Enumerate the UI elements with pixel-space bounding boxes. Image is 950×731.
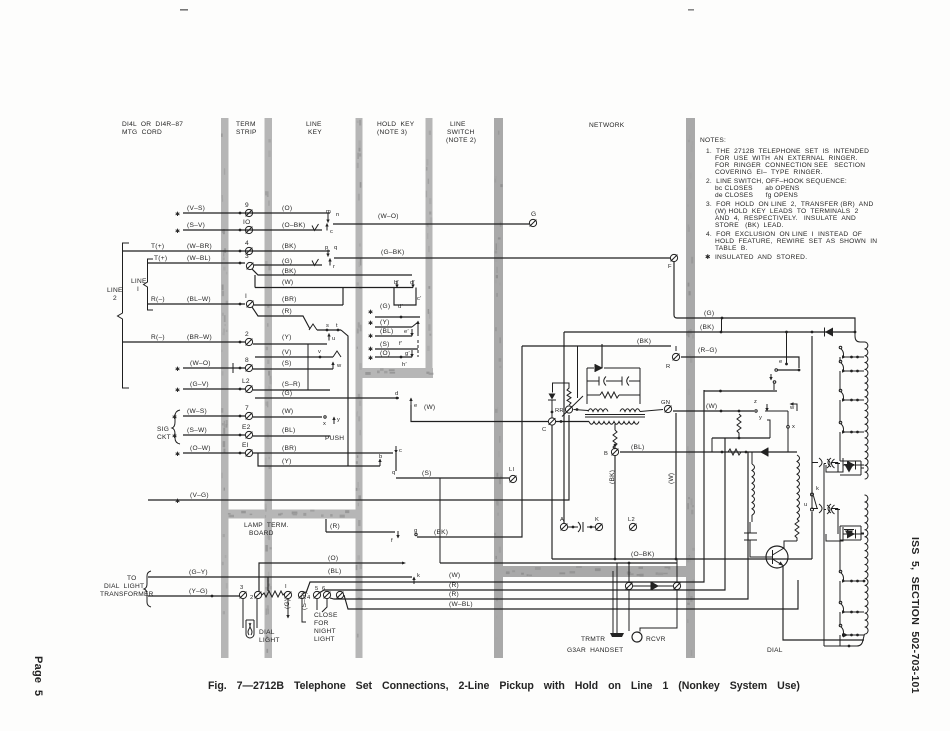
svg-text:(BK): (BK) xyxy=(434,529,448,536)
svg-text:✱: ✱ xyxy=(368,320,373,327)
svg-text:(BK): (BK) xyxy=(637,338,651,345)
svg-text:RCVR: RCVR xyxy=(646,636,666,643)
svg-text:TRMTR: TRMTR xyxy=(581,636,605,643)
svg-text:(R): (R) xyxy=(449,582,459,589)
svg-text:MTG CORD: MTG CORD xyxy=(122,129,162,136)
svg-text:(S–R): (S–R) xyxy=(282,381,300,388)
svg-text:RR: RR xyxy=(555,408,564,414)
svg-text:(G): (G) xyxy=(282,258,292,265)
svg-text:h′: h′ xyxy=(402,362,407,368)
svg-text:LINE: LINE xyxy=(450,121,466,128)
svg-text:(S–V): (S–V) xyxy=(187,222,205,229)
svg-text:3: 3 xyxy=(240,585,243,591)
svg-text:u: u xyxy=(804,502,807,508)
svg-text:3. FOR HOLD ON LINE 2, TR: 3. FOR HOLD ON LINE 2, TRANSFER (BR) AND xyxy=(706,201,873,208)
svg-text:(Y): (Y) xyxy=(282,334,292,341)
svg-text:✱: ✱ xyxy=(175,366,180,373)
svg-text:(Y): (Y) xyxy=(380,319,390,326)
svg-text:✱: ✱ xyxy=(175,498,180,505)
svg-text:LINE: LINE xyxy=(107,287,123,294)
svg-text:(O–BK): (O–BK) xyxy=(631,551,654,558)
svg-text:ISS 5, SECTION 502-703-101: ISS 5, SECTION 502-703-101 xyxy=(909,537,921,694)
svg-text:(O): (O) xyxy=(282,205,292,212)
svg-text:TABLE B.: TABLE B. xyxy=(715,245,748,252)
svg-text:c: c xyxy=(399,448,402,454)
svg-text:LI: LI xyxy=(509,467,514,473)
svg-text:BOARD: BOARD xyxy=(249,530,274,537)
svg-text:e′: e′ xyxy=(404,329,409,335)
svg-text:✱: ✱ xyxy=(368,355,373,362)
svg-text:f: f xyxy=(391,538,393,544)
svg-text:(G): (G) xyxy=(284,599,291,609)
svg-text:STORE (BK) LEAD.: STORE (BK) LEAD. xyxy=(715,222,784,229)
svg-text:bc CLOSES ab OPENS: bc CLOSES ab OPENS xyxy=(715,185,800,192)
svg-text:NOTES:: NOTES: xyxy=(700,137,726,144)
svg-text:q: q xyxy=(392,470,395,476)
svg-text:TRANSFORMER: TRANSFORMER xyxy=(100,591,154,598)
svg-text:SIG: SIG xyxy=(157,426,169,433)
svg-text:2: 2 xyxy=(245,331,249,338)
svg-text:✱: ✱ xyxy=(175,211,180,218)
svg-text:(G–Y): (G–Y) xyxy=(189,569,208,576)
svg-text:(BR): (BR) xyxy=(282,296,297,303)
svg-text:(BK): (BK) xyxy=(282,268,296,275)
svg-text:(S): (S) xyxy=(380,341,390,348)
svg-text:e: e xyxy=(779,359,782,365)
svg-text:B: B xyxy=(604,451,608,457)
svg-text:R(–): R(–) xyxy=(151,334,165,341)
svg-text:HOLD KEY: HOLD KEY xyxy=(377,121,415,128)
svg-text:(BK): (BK) xyxy=(609,470,616,484)
svg-text:(V–S): (V–S) xyxy=(187,205,205,212)
svg-text:(O–BK): (O–BK) xyxy=(282,222,305,229)
svg-text:v: v xyxy=(318,349,321,355)
svg-text:KEY: KEY xyxy=(308,129,322,136)
svg-text:✱: ✱ xyxy=(175,228,180,235)
svg-text:(BK): (BK) xyxy=(282,243,296,250)
svg-text:(W): (W) xyxy=(282,408,293,415)
svg-text:(G–V): (G–V) xyxy=(190,381,209,388)
svg-text:✱: ✱ xyxy=(368,333,373,340)
svg-text:z: z xyxy=(754,399,757,405)
svg-text:G3AR HANDSET: G3AR HANDSET xyxy=(567,647,623,654)
svg-text:s: s xyxy=(326,323,329,329)
svg-text:3: 3 xyxy=(245,253,249,260)
svg-text:DIAL: DIAL xyxy=(259,629,275,636)
svg-text:1. THE 2712B TELEPHONE SET: 1. THE 2712B TELEPHONE SET IS INTENDED xyxy=(706,148,869,155)
svg-text:EI: EI xyxy=(242,442,249,449)
svg-text:LIGHT: LIGHT xyxy=(314,636,335,643)
svg-text:✱: ✱ xyxy=(368,346,373,353)
svg-text:A: A xyxy=(560,517,564,523)
svg-text:(BL): (BL) xyxy=(631,444,644,451)
svg-text:FOR RINGER CONNECTION SEE: FOR RINGER CONNECTION SEE SECTION xyxy=(715,162,865,169)
svg-text:T(+): T(+) xyxy=(151,243,164,250)
svg-text:de CLOSES fg OPENS: de CLOSES fg OPENS xyxy=(715,192,798,199)
svg-text:(W) HOLD KEY LEADS TO TERM: (W) HOLD KEY LEADS TO TERMINALS 2 xyxy=(715,208,859,215)
svg-text:k: k xyxy=(417,573,420,579)
svg-text:I: I xyxy=(137,286,139,293)
svg-text:q: q xyxy=(334,245,337,251)
svg-text:✱: ✱ xyxy=(175,451,180,458)
svg-text:(O): (O) xyxy=(380,350,390,357)
svg-text:(S): (S) xyxy=(422,470,432,477)
svg-text:LINE: LINE xyxy=(306,121,322,128)
svg-text:Fig. 7—2712B Telephone Set: Fig. 7—2712B Telephone Set Connections, … xyxy=(208,680,800,692)
svg-text:(R): (R) xyxy=(282,308,292,315)
svg-text:m: m xyxy=(326,209,331,215)
svg-text:y: y xyxy=(337,417,340,423)
svg-text:k: k xyxy=(816,486,819,492)
svg-text:DIAL LIGHT: DIAL LIGHT xyxy=(104,583,144,590)
svg-text:(W–BL): (W–BL) xyxy=(449,601,473,608)
svg-text:NETWORK: NETWORK xyxy=(589,122,625,129)
svg-text:w: w xyxy=(789,405,795,411)
svg-text:(W): (W) xyxy=(706,403,717,410)
svg-text:(W–BR): (W–BR) xyxy=(187,243,212,250)
svg-text:4: 4 xyxy=(245,240,249,247)
svg-text:LAMP TERM.: LAMP TERM. xyxy=(244,522,289,529)
svg-text:(R): (R) xyxy=(330,523,340,530)
svg-text:r: r xyxy=(333,264,335,270)
svg-text:(Y–G): (Y–G) xyxy=(189,588,208,595)
svg-text:CLOSE: CLOSE xyxy=(314,612,338,619)
svg-text:t: t xyxy=(336,323,338,329)
svg-text:4. FOR EXCLUSION ON LINE I: 4. FOR EXCLUSION ON LINE I INSTEAD OF xyxy=(706,231,862,238)
svg-text:I: I xyxy=(245,293,247,300)
svg-text:(BL): (BL) xyxy=(328,568,341,575)
svg-text:y: y xyxy=(759,415,762,421)
svg-text:u: u xyxy=(332,336,335,342)
svg-text:(R–G): (R–G) xyxy=(698,347,717,354)
svg-text:TERM: TERM xyxy=(236,121,256,128)
svg-text:x: x xyxy=(792,424,795,430)
svg-text:9: 9 xyxy=(245,202,249,209)
svg-text:2: 2 xyxy=(250,595,253,601)
svg-text:(BR): (BR) xyxy=(282,445,297,452)
svg-text:HOLD FEATURE, REWIRE SET A: HOLD FEATURE, REWIRE SET AS SHOWN IN xyxy=(715,238,877,245)
svg-text:(W): (W) xyxy=(668,473,675,484)
svg-text:(W–S): (W–S) xyxy=(187,408,207,415)
svg-text:G: G xyxy=(531,211,536,218)
svg-text:(R): (R) xyxy=(449,591,459,598)
svg-text:(G): (G) xyxy=(282,390,292,397)
svg-text:8: 8 xyxy=(245,357,249,364)
svg-text:(S–W): (S–W) xyxy=(187,427,207,434)
svg-text:✱: ✱ xyxy=(175,387,180,394)
svg-text:d′: d′ xyxy=(398,304,403,310)
svg-text:(NOTE 2): (NOTE 2) xyxy=(446,137,476,144)
svg-text:n: n xyxy=(336,212,339,218)
svg-text:x: x xyxy=(323,421,326,427)
svg-text:(W): (W) xyxy=(449,572,460,579)
svg-text:7: 7 xyxy=(245,405,249,412)
svg-text:E2: E2 xyxy=(242,424,251,431)
svg-text:(G): (G) xyxy=(380,303,390,310)
svg-text:(O): (O) xyxy=(328,555,338,562)
svg-text:COVERING EI– TYPE RINGER.: COVERING EI– TYPE RINGER. xyxy=(715,169,823,176)
svg-text:L2: L2 xyxy=(242,378,250,385)
svg-text:F: F xyxy=(668,264,672,270)
svg-text:R(–): R(–) xyxy=(151,296,165,303)
svg-text:FOR USE WITH AN EXTERNAL: FOR USE WITH AN EXTERNAL RINGER. xyxy=(715,155,858,162)
svg-text:(W): (W) xyxy=(424,404,435,411)
svg-text:LIGHT: LIGHT xyxy=(259,637,280,644)
svg-text:2: 2 xyxy=(113,295,117,302)
svg-text:(BL): (BL) xyxy=(380,328,393,335)
svg-text:(W–BL): (W–BL) xyxy=(187,255,211,262)
svg-text:DI4L OR DI4R–87: DI4L OR DI4R–87 xyxy=(122,121,183,128)
svg-text:I: I xyxy=(285,584,287,590)
svg-text:(G–BK): (G–BK) xyxy=(381,249,404,256)
svg-text:c: c xyxy=(330,229,333,235)
svg-text:(BR–W): (BR–W) xyxy=(187,334,212,341)
svg-text:w: w xyxy=(336,363,342,369)
svg-text:IO: IO xyxy=(243,219,250,226)
svg-text:AND 4, RESPECTIVELY. INSUL: AND 4, RESPECTIVELY. INSULATE AND xyxy=(715,215,856,222)
svg-text:(V): (V) xyxy=(282,349,292,356)
svg-text:e: e xyxy=(414,403,417,409)
svg-text:R: R xyxy=(666,364,670,370)
svg-text:SWITCH: SWITCH xyxy=(447,129,475,136)
svg-text:(O–W): (O–W) xyxy=(190,445,211,452)
svg-text:K: K xyxy=(595,517,599,523)
svg-text:(V–G): (V–G) xyxy=(190,492,209,499)
svg-text:(NOTE 3): (NOTE 3) xyxy=(377,129,407,136)
svg-text:✱: ✱ xyxy=(368,309,373,316)
svg-text:f′: f′ xyxy=(399,341,402,347)
svg-text:(Y): (Y) xyxy=(282,458,292,465)
svg-text:(BL–W): (BL–W) xyxy=(187,296,211,303)
svg-text:(S–R): (S–R) xyxy=(301,592,308,610)
svg-text:(S): (S) xyxy=(282,360,292,367)
svg-text:(BK): (BK) xyxy=(700,324,714,331)
svg-text:✱: ✱ xyxy=(172,414,177,421)
svg-text:g′: g′ xyxy=(405,351,410,357)
svg-text:L2: L2 xyxy=(628,517,635,523)
svg-text:c′: c′ xyxy=(417,296,422,302)
svg-text:T(+): T(+) xyxy=(154,255,167,262)
svg-text:TO: TO xyxy=(127,575,137,582)
svg-text:✱ INSULATED AND STORED.: ✱ INSULATED AND STORED. xyxy=(705,253,807,261)
svg-text:NIGHT: NIGHT xyxy=(314,628,336,635)
svg-text:CKT: CKT xyxy=(157,434,171,441)
svg-text:FOR: FOR xyxy=(314,620,329,627)
svg-text:DIAL: DIAL xyxy=(767,647,783,654)
svg-text:Page 5: Page 5 xyxy=(32,656,44,696)
svg-text:(G): (G) xyxy=(704,310,714,317)
svg-text:2. LINE SWITCH, OFF–HOOK SEQU: 2. LINE SWITCH, OFF–HOOK SEQUENCE: xyxy=(706,178,847,185)
svg-text:(W): (W) xyxy=(282,279,293,286)
svg-text:(W–O): (W–O) xyxy=(378,213,399,220)
svg-text:✱: ✱ xyxy=(172,433,177,440)
svg-text:d: d xyxy=(395,391,398,397)
svg-text:(BL): (BL) xyxy=(282,427,295,434)
svg-text:STRIP: STRIP xyxy=(236,129,257,136)
svg-text:(W–O): (W–O) xyxy=(190,360,211,367)
svg-text:C: C xyxy=(542,427,546,433)
